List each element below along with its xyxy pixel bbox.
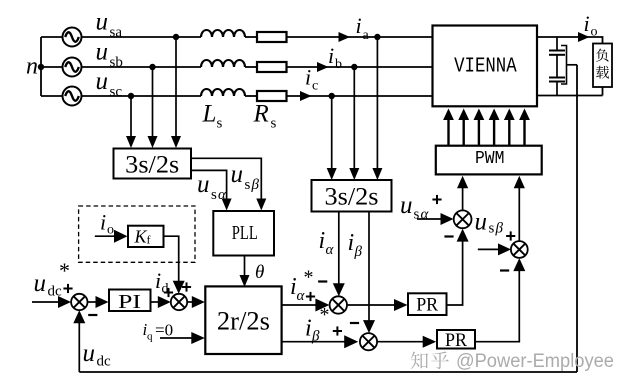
svg-text:PR: PR (445, 330, 467, 351)
svg-text:i: i (584, 11, 590, 36)
wire i_beta_ref to summer (282, 335, 359, 348)
node phase c current tap (329, 93, 335, 99)
svg-text:2r/2s: 2r/2s (217, 307, 270, 336)
wire phase c resistor to VIENNA (287, 95, 433, 97)
svg-text:=0: =0 (155, 321, 173, 340)
wire u_dc feedback down (576, 65, 578, 372)
label i_b (328, 43, 342, 72)
wire u_sbeta feed (478, 243, 511, 255)
ac source u_sb (63, 58, 82, 77)
wire phase b resistor to VIENNA (287, 66, 433, 68)
wire i_alpha_ref to summer (282, 299, 330, 312)
arrow i_b (317, 62, 329, 72)
block Kf (128, 226, 164, 247)
summer i_beta (360, 333, 377, 350)
svg-text:VIENNA: VIENNA (454, 55, 517, 79)
svg-text:β: β (495, 221, 504, 237)
svg-text:α: α (297, 288, 306, 304)
wire dc positive rail (537, 37, 603, 44)
node phase c voltage tap (128, 93, 134, 99)
label u_salpha feed (400, 192, 430, 223)
svg-text:dc: dc (97, 354, 112, 370)
svg-text:β: β (311, 329, 320, 345)
svg-text:o: o (591, 25, 598, 40)
svg-text:*: * (320, 304, 330, 326)
svg-text:s: s (271, 116, 277, 132)
wire capacitor branch upper (556, 37, 558, 51)
svg-text:α: α (421, 207, 430, 223)
wire u_salpha summer to PWM (457, 176, 468, 211)
resistor Rs phase c (257, 91, 287, 101)
wire voltage sense phase c (126, 96, 136, 148)
label Rs (253, 101, 277, 132)
wire phase b source to inductor (82, 66, 201, 68)
label i_a (356, 13, 370, 43)
arrow i_o (578, 32, 590, 42)
summer i_alpha (330, 296, 347, 313)
svg-text:u: u (231, 161, 244, 188)
svg-text:*: * (59, 258, 70, 283)
svg-text:n: n (26, 54, 38, 80)
summer u_salpha (454, 210, 472, 228)
svg-text:s: s (211, 187, 217, 203)
block VIENNA rectifier (433, 26, 538, 107)
wire phase b from bus to source (41, 66, 62, 68)
svg-text:i: i (328, 43, 334, 68)
svg-text:c: c (312, 79, 318, 94)
svg-text:*: * (304, 267, 314, 289)
svg-text:u: u (83, 340, 96, 367)
wire theta PLL to 2r/2s (240, 256, 250, 288)
capacitor C1 (549, 51, 565, 55)
svg-text:α: α (218, 187, 227, 203)
label i_alpha_ref (290, 267, 314, 304)
resistor Rs phase b (257, 62, 287, 72)
sign plus i_beta_ref (333, 326, 342, 335)
label u_dc (83, 340, 112, 370)
node phase a voltage tap (173, 34, 179, 40)
label i_o (584, 11, 598, 40)
svg-text:s: s (414, 207, 420, 223)
sign plus u_salpha (432, 195, 441, 204)
svg-text:PLL: PLL (232, 222, 258, 244)
wire current sense phase a (372, 37, 382, 180)
wires PWM gate signals to VIENNA (443, 109, 530, 146)
wire midpoint tap (567, 64, 578, 66)
wire between capacitors (556, 55, 558, 78)
summer i_d (171, 294, 187, 310)
wire load to dc negative rail (602, 87, 604, 96)
wire i_o to Kf (95, 230, 128, 243)
sign plus right at i_d summer (182, 282, 191, 291)
wire i_beta summer to PR2 (377, 336, 436, 348)
wire left neutral bus (40, 37, 42, 96)
wire u_dc feedback bottom (79, 371, 577, 373)
watermark zhihu Power-Employee (411, 351, 614, 372)
ac source u_sa (63, 28, 82, 47)
wire phase c from bus to source (41, 95, 62, 97)
sign plus u_sbeta (506, 231, 515, 240)
wire current sense phase b (349, 67, 359, 180)
svg-text:i: i (100, 210, 106, 235)
svg-text:β: β (251, 177, 260, 193)
svg-text:f: f (147, 233, 151, 247)
node n dot (38, 64, 44, 70)
svg-text:@Power-Employee: @Power-Employee (456, 351, 614, 372)
svg-text:u: u (34, 270, 47, 297)
label i_q equals 0 (143, 320, 174, 343)
label u_dc_ref (34, 270, 63, 300)
svg-text:a: a (363, 28, 370, 43)
svg-text:α: α (326, 242, 335, 258)
wire PI to i_d summer (151, 296, 171, 308)
label n (26, 54, 38, 80)
label load char zai (596, 66, 609, 79)
label u_sc (96, 68, 123, 100)
svg-text:PI: PI (118, 291, 141, 313)
node phase b voltage tap (149, 64, 155, 70)
label i_d (155, 268, 169, 297)
svg-text:u: u (475, 209, 488, 236)
wire voltage sense phase b (148, 67, 158, 148)
svg-text:sa: sa (110, 25, 123, 41)
inductor Ls phase c (201, 89, 245, 96)
label theta (255, 262, 264, 283)
svg-text:i: i (305, 65, 311, 90)
svg-text:u: u (96, 68, 109, 95)
label u_dc_ref star (59, 258, 70, 283)
wire current sense phase c (327, 96, 337, 180)
svg-text:u: u (96, 38, 109, 65)
label Ls (202, 101, 223, 132)
arrow i_c (300, 91, 312, 101)
svg-text:R: R (253, 101, 269, 128)
sign plus left at i_d summer (164, 288, 173, 297)
label u_sbeta feed (475, 209, 504, 237)
ac source u_sc (63, 87, 82, 106)
wire dc negative rail (537, 95, 603, 97)
load box (593, 44, 612, 88)
svg-text:L: L (202, 101, 217, 128)
svg-text:i: i (319, 228, 326, 254)
svg-text:sc: sc (110, 84, 123, 100)
sign minus u_salpha (444, 235, 453, 237)
node phase a current tap (374, 34, 380, 40)
wire PR1 to u_salpha summer (447, 229, 469, 305)
wire u_dc feedback up to summer (73, 310, 85, 372)
wire i_beta (363, 212, 375, 334)
svg-text:i: i (155, 268, 161, 293)
label i_beta (348, 230, 363, 260)
wire i_d summer to 2r/2s (187, 296, 205, 308)
svg-text:s: s (489, 221, 495, 237)
wire voltage sense phase a (171, 37, 181, 148)
bracket capacitor midpoint (561, 46, 567, 85)
svg-text:i: i (356, 13, 362, 38)
svg-text:PR: PR (416, 295, 438, 316)
svg-text:u: u (400, 192, 413, 219)
wire u_sbeta summer to PWM (514, 176, 525, 241)
svg-text:K: K (134, 227, 148, 247)
block PR1 (408, 293, 447, 315)
svg-text:i: i (348, 230, 355, 256)
svg-text:u: u (197, 171, 210, 198)
wire phase a inductor to resistor (245, 36, 257, 38)
sign minus u_sbeta (500, 269, 509, 271)
block PLL (213, 211, 274, 256)
sign minus i_beta (350, 322, 359, 324)
svg-text:β: β (354, 244, 363, 260)
wire phase c inductor to resistor (245, 95, 257, 97)
block 3s/2s current transform (312, 180, 392, 212)
dashed feedforward box (79, 206, 195, 262)
block PR2 (437, 330, 475, 351)
wire i_alpha (333, 212, 345, 297)
label i_alpha (319, 228, 335, 258)
node phase b current tap (351, 64, 357, 70)
wire phase a resistor to VIENNA (287, 36, 433, 38)
svg-text:θ: θ (255, 262, 264, 283)
wire capacitor branch lower (556, 82, 558, 96)
svg-text:s: s (217, 116, 223, 132)
summer u_sbeta (511, 241, 528, 258)
label u_sbeta (231, 161, 260, 193)
label i_c (305, 65, 318, 94)
svg-text:d: d (162, 282, 169, 297)
label u_sb (96, 38, 123, 70)
summer u_dc (71, 294, 87, 310)
wire summer to PI (88, 296, 109, 308)
sign plus at u_dc summer (63, 284, 72, 293)
svg-text:3s/2s: 3s/2s (125, 152, 179, 179)
wire u_dc_ref input (32, 296, 71, 308)
sign minus i_alpha (318, 280, 327, 282)
label load char fu (596, 49, 608, 62)
svg-text:s: s (245, 177, 251, 193)
wire u_salpha to PLL (191, 170, 232, 210)
wire PR2 to u_sbeta summer (475, 258, 525, 342)
wire u_sbeta to PLL (191, 158, 266, 210)
wire i_alpha summer to PR1 (347, 299, 408, 311)
wire u_salpha feed (417, 213, 454, 225)
svg-text:3s/2s: 3s/2s (325, 183, 379, 210)
wire Kf to i_d summer (164, 236, 185, 294)
label i_o feedforward (100, 210, 114, 238)
wire phase a from bus to source (41, 36, 62, 38)
inductor Ls phase b (201, 60, 245, 67)
wire i_q input (160, 332, 205, 344)
wire phase a source to inductor (82, 36, 201, 38)
inductor Ls phase a (201, 30, 245, 37)
block 2r/2s (205, 286, 281, 354)
label u_salpha (197, 171, 227, 203)
svg-text:i: i (305, 316, 312, 342)
sign minus at u_dc summer (88, 314, 97, 316)
block PWM (436, 146, 542, 175)
label i_beta_ref (305, 304, 330, 345)
svg-text:o: o (107, 223, 114, 238)
svg-text:q: q (147, 331, 153, 343)
resistor Rs phase a (257, 32, 287, 42)
wire phase b inductor to resistor (245, 66, 257, 68)
block PI (109, 290, 151, 314)
svg-text:u: u (96, 8, 109, 35)
svg-text:PWM: PWM (475, 148, 505, 169)
label u_sa (96, 8, 123, 40)
sign plus i_alpha_ref (306, 292, 315, 301)
wire phase c source to inductor (82, 95, 201, 97)
capacitor C2 (549, 78, 565, 82)
block 3s/2s voltage transform (114, 149, 192, 179)
arrow i_a (339, 32, 351, 42)
svg-text:b: b (335, 57, 342, 72)
svg-text:sb: sb (110, 55, 123, 71)
